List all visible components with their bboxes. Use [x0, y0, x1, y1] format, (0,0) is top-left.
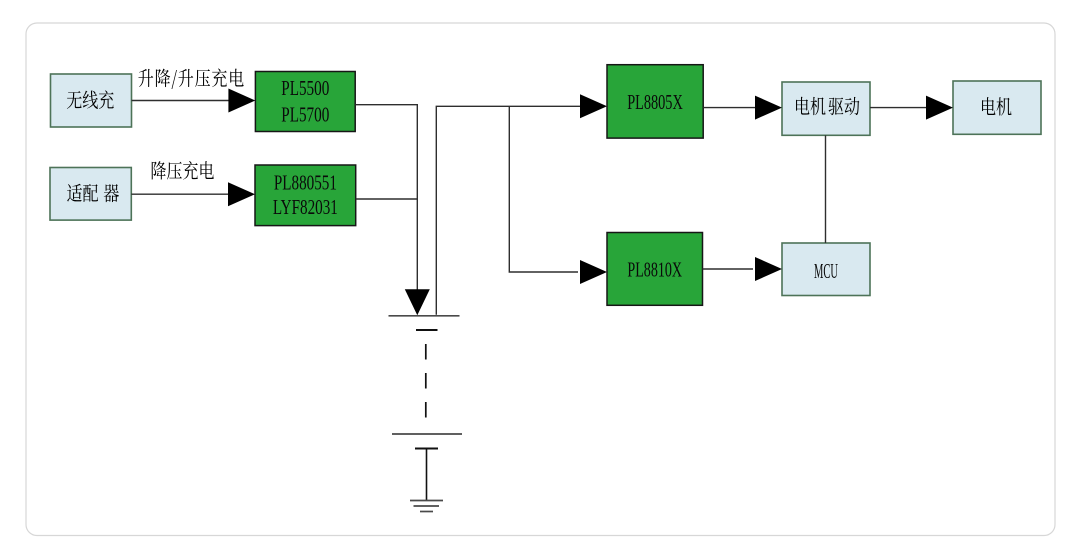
- arrowhead into MCU: [755, 257, 782, 281]
- battery cell plate short: [416, 329, 438, 331]
- label 升降/升压充电: [138, 69, 243, 89]
- wire 无线充 to PL5500: [132, 100, 232, 102]
- text 电机: [982, 97, 1012, 115]
- text 无线充: [67, 90, 114, 109]
- svg-text:PL880551: PL880551: [274, 171, 337, 195]
- block 适配器 (adapter): [50, 168, 131, 221]
- text 电机驱动: [796, 97, 859, 116]
- block PL8805X regulator: [607, 65, 703, 138]
- arrowhead into PL5500: [228, 89, 255, 113]
- svg-text:LYF82031: LYF82031: [273, 195, 338, 219]
- battery dashed link: [425, 344, 427, 421]
- wire PL880551 to battery bus: [356, 198, 418, 200]
- arrowhead into 电机驱动: [755, 96, 782, 120]
- svg-text:MCU: MCU: [814, 259, 838, 283]
- wire battery negative to ground: [426, 449, 428, 501]
- wire 电机驱动 to MCU: [825, 135, 827, 243]
- battery cell plate long (bottom): [392, 433, 462, 435]
- svg-text:PL8810X: PL8810X: [627, 258, 682, 282]
- wire battery to load bus: [436, 106, 580, 314]
- arrowhead into battery: [405, 289, 430, 315]
- wire branch to PL8810X: [509, 106, 578, 272]
- wire 电机驱动 to 电机: [870, 107, 926, 109]
- arrowhead into PL880551: [228, 182, 255, 206]
- wire 适配器 to PL880551: [131, 193, 231, 195]
- block PL8810X regulator: [607, 233, 703, 306]
- wire PL5500 to battery bus: [355, 105, 417, 291]
- ground: [410, 501, 443, 512]
- wire PL8805X to 电机驱动: [703, 107, 755, 109]
- label 降压充电: [152, 161, 214, 180]
- block PL880551/LYF82031 charger IC: [255, 165, 356, 226]
- svg-text:PL5500: PL5500: [281, 76, 329, 100]
- svg-text:PL5700: PL5700: [281, 103, 329, 127]
- block MCU: [782, 243, 870, 296]
- arrowhead into 电机: [926, 96, 953, 120]
- wire PL8810X to MCU: [703, 268, 754, 270]
- svg-text:PL8805X: PL8805X: [627, 90, 683, 114]
- arrowhead into PL8805X: [580, 94, 607, 118]
- arrowhead into PL8810X: [580, 260, 607, 284]
- block 电机 (motor): [953, 81, 1041, 134]
- battery cell plate short (bottom): [415, 448, 438, 450]
- block 无线充 (wireless charger): [51, 74, 132, 127]
- battery cell plate long (top): [389, 315, 460, 317]
- block PL5500/PL5700 charger IC: [255, 72, 355, 132]
- text 适配器: [67, 184, 119, 202]
- block 电机驱动 (motor driver): [782, 82, 870, 135]
